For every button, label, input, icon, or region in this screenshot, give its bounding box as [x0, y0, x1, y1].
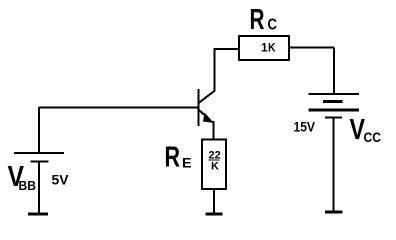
- wire RC right lead to VCC: [289, 47, 334, 49]
- battery VCC plate 4 short: [325, 117, 342, 119]
- ground bar below VBB: [28, 213, 48, 216]
- battery VBB long plate (+): [14, 152, 64, 154]
- svg-text:5V: 5V: [52, 172, 70, 188]
- svg-text:K: K: [211, 161, 219, 173]
- wire RE bottom lead: [213, 189, 215, 213]
- wire VCC positive terminal vertical: [333, 48, 335, 95]
- wire base horizontal from VBB to transistor base: [39, 107, 199, 109]
- svg-text:1: 1: [261, 41, 268, 55]
- wire VBB positive terminal vertical: [38, 107, 40, 153]
- svg-text:K: K: [268, 41, 276, 55]
- transistor Q1 emitter arrow: [203, 113, 214, 124]
- wire collector vertical up to RC: [214, 48, 216, 92]
- transistor Q1 base bar: [198, 89, 200, 126]
- transistor Q1 emitter diagonal: [199, 110, 210, 120]
- battery VCC plate 1 long: [309, 93, 360, 95]
- svg-text:R: R: [250, 4, 265, 36]
- label RC: [250, 4, 278, 36]
- resistor RE box: [202, 140, 226, 190]
- battery VCC plate 2 short: [323, 100, 343, 103]
- value label 22 K: [209, 150, 221, 173]
- svg-text:E: E: [182, 155, 192, 171]
- label VBB: [8, 161, 37, 193]
- transistor Q1 collector diagonal: [199, 91, 216, 104]
- wire VCC negative terminal vertical: [333, 118, 335, 211]
- svg-text:CC: CC: [364, 129, 382, 145]
- svg-text:C: C: [268, 17, 278, 34]
- battery VBB short plate (-): [31, 160, 49, 162]
- label VCC: [350, 114, 382, 146]
- wire RC left lead: [214, 48, 240, 50]
- battery VCC plate 3 long: [309, 109, 360, 112]
- svg-text:R: R: [165, 142, 181, 174]
- ground bar below VCC: [325, 211, 343, 214]
- wire VBB negative terminal vertical: [38, 162, 40, 214]
- wire emitter vertical down to RE: [213, 121, 215, 140]
- svg-text:15V: 15V: [294, 119, 316, 135]
- resistor RC box: [239, 36, 289, 60]
- svg-text:BB: BB: [19, 178, 37, 193]
- label RE: [165, 142, 192, 174]
- ground bar below RE: [206, 213, 223, 216]
